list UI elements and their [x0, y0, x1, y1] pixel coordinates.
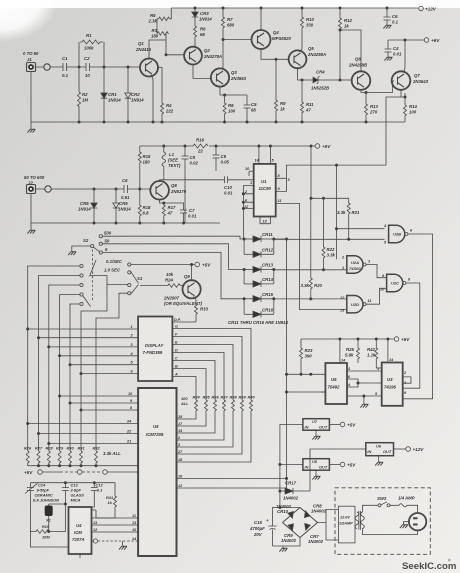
wire: U2D input 12 gating line: [274, 298, 347, 300]
wire: to Q2 base: [166, 54, 185, 56]
svg-text:180: 180: [143, 160, 151, 165]
svg-text:CR5: CR5: [80, 201, 89, 206]
diode CR17: [280, 481, 310, 501]
svg-text:1/2AMP: 1/2AMP: [339, 522, 353, 526]
diode CR9: [283, 523, 301, 538]
diode CR3: [192, 7, 212, 27]
ground under C6: [383, 25, 391, 28]
wire: U7 out: [329, 424, 340, 426]
resistor R8: [223, 94, 236, 123]
svg-text:10k: 10k: [166, 272, 174, 277]
wire: U1 left pin tie down to CR11: [243, 171, 249, 239]
transistor Q1: [135, 41, 158, 77]
svg-text:1N914: 1N914: [131, 98, 144, 103]
wire: U5 pin 12 right: [177, 487, 287, 489]
resistor R24: [165, 272, 182, 287]
wire: pullup feed line: [311, 197, 349, 199]
wire: osc bottom return: [30, 504, 68, 547]
wire: display pin5 to bus: [70, 364, 134, 366]
wire: S1 elbow path A: [81, 276, 107, 452]
svg-text:R13: R13: [370, 104, 378, 109]
node R3/Q1/Q2: [165, 53, 168, 56]
svg-text:1: 1: [342, 266, 344, 270]
svg-text:+5V: +5V: [347, 463, 356, 468]
gating diode CR14: [244, 277, 274, 287]
U1 bottom pin loop: [260, 217, 270, 224]
wire: oscillator top rail: [30, 482, 115, 484]
svg-text:7207A: 7207A: [72, 537, 85, 542]
resistor R28: [47, 451, 50, 466]
resistor R15: [138, 146, 151, 189]
svg-text:1.1k: 1.1k: [367, 353, 376, 358]
display segment pin B: [172, 364, 206, 400]
bridge labels: [276, 504, 327, 545]
display segment pin C: [172, 356, 215, 400]
svg-text:C9: C9: [221, 154, 227, 159]
gate U2B: [383, 224, 413, 245]
svg-text:R39: R39: [239, 395, 247, 400]
svg-text:R16: R16: [196, 138, 204, 143]
svg-text:Q4: Q4: [273, 30, 279, 35]
wire: J1 to C1: [36, 66, 64, 68]
wire: Q7 collector to +6V rail: [403, 40, 405, 73]
display DP pin: [172, 318, 196, 322]
svg-text:0 TO 50: 0 TO 50: [23, 51, 39, 56]
svg-text:4700μF: 4700μF: [249, 526, 265, 531]
ganged switch dashed link: [92, 250, 94, 303]
wire: C1 to C2 node: [67, 66, 87, 68]
wire: J2 to C6b: [36, 188, 125, 190]
capacitor C6: [384, 7, 399, 26]
contact 50: [99, 238, 110, 245]
svg-text:J1: J1: [27, 57, 32, 62]
wire: R10 to Q5 collector: [299, 29, 302, 52]
jack J1: [27, 63, 36, 72]
svg-text:R6: R6: [200, 27, 206, 32]
wire: node to CR2/Q1: [104, 66, 141, 68]
transistor Q4: [252, 30, 292, 49]
svg-text:C: C: [175, 356, 178, 360]
crystal X1: [45, 506, 53, 523]
wire: U5 pin 8 to bus: [81, 409, 134, 411]
svg-text:OUT: OUT: [319, 464, 328, 469]
ground under C4: [384, 57, 392, 60]
wire: R23/R20 to U6 pin: [287, 373, 326, 375]
svg-text:MPS6520: MPS6520: [272, 36, 291, 41]
wire: output tap to gate section: [386, 97, 401, 165]
resistor R17: [160, 199, 176, 223]
contact 0.1sec: [128, 263, 131, 266]
wire: Q1 source down: [151, 75, 153, 122]
svg-text:E.F.JOHNSON: E.F.JOHNSON: [33, 498, 59, 503]
wire: Q4 collector to rail: [260, 8, 262, 31]
svg-text:11C90: 11C90: [259, 186, 272, 191]
svg-text:0.1: 0.1: [62, 73, 69, 78]
resistor R6: [194, 26, 207, 47]
wire: Q6 emitter to Q7 base: [361, 81, 394, 93]
svg-text:D: D: [175, 348, 178, 352]
wire: x310 pullup vertical: [310, 198, 312, 278]
wire: U4b in from CR17: [310, 449, 366, 491]
svg-text:75492: 75492: [328, 385, 341, 390]
wire: U4b out: [394, 448, 406, 450]
terminal +5V left: [38, 470, 43, 475]
resistor R30: [69, 451, 72, 466]
svg-text:1N4002: 1N4002: [308, 539, 324, 544]
resistor R41: [106, 483, 117, 518]
svg-text:50 TO 500: 50 TO 500: [24, 175, 45, 180]
svg-text:SW3: SW3: [377, 496, 387, 501]
svg-text:U3: U3: [387, 377, 393, 382]
wire 500 line: [102, 236, 244, 239]
contact 5: [99, 247, 108, 254]
capacitor C2: [84, 56, 104, 78]
svg-text:R9: R9: [280, 101, 286, 106]
svg-text:IN: IN: [367, 449, 371, 454]
svg-text:CR15: CR15: [262, 292, 274, 297]
svg-text:C2: C2: [84, 56, 90, 61]
svg-text:330: 330: [306, 23, 314, 28]
svg-text:C6: C6: [392, 14, 398, 19]
diode CR10: [283, 508, 301, 523]
resistor R20: [301, 278, 323, 299]
svg-text:1/4 AMP: 1/4 AMP: [398, 496, 415, 501]
resistor R35: [138, 395, 210, 427]
node junction C2/CR1: [103, 66, 106, 69]
svg-text:0.01: 0.01: [188, 214, 197, 219]
svg-text:CR16: CR16: [262, 307, 274, 312]
resistor R34: [138, 395, 200, 420]
gating diode CR15: [244, 292, 274, 302]
terminal circle mid1: [77, 470, 82, 475]
contact 1.0sec: [128, 271, 131, 274]
svg-text:R17: R17: [168, 205, 176, 210]
ground U7: [315, 430, 317, 436]
svg-text:1: 1: [377, 367, 379, 371]
svg-text:ICM: ICM: [74, 530, 82, 535]
resistor R7: [222, 7, 235, 40]
svg-text:+5V: +5V: [347, 423, 356, 428]
wire: +5V drop to pullups: [310, 146, 312, 198]
svg-text:0.1/SEC: 0.1/SEC: [106, 259, 123, 264]
display segment pin D: [172, 348, 224, 400]
svg-text:Q9: Q9: [184, 274, 190, 279]
svg-text:0.1: 0.1: [392, 20, 399, 25]
svg-text:0.05: 0.05: [221, 160, 230, 165]
svg-text:1N5252B: 1N5252B: [311, 86, 329, 91]
capacitor C9 bypass: [213, 145, 230, 172]
wire: U2C out right and down: [403, 283, 420, 388]
resistor R22: [322, 247, 335, 270]
capacitor C1: [62, 56, 69, 78]
ground symbol J1 bus: [27, 129, 35, 132]
svg-text:68: 68: [251, 108, 256, 113]
display segment pin G: [172, 324, 251, 400]
wire: R41 to U4: [92, 517, 116, 519]
svg-text:R3: R3: [152, 28, 158, 33]
wire: cathode pair ties x273.8: [273, 239, 275, 314]
svg-text:U2D: U2D: [351, 302, 359, 307]
wire: U5 pin 10 to bus: [60, 395, 134, 397]
counter IC U5 ICM7208: [138, 388, 176, 556]
wire: Q5 emitter down to CR4 line: [298, 68, 314, 81]
wire dashes: [82, 471, 103, 473]
wire: U5 pin 9 to bus: [70, 402, 134, 404]
wire 50 line: [102, 244, 244, 270]
resistor R40: [177, 395, 256, 463]
svg-text:U6: U6: [376, 444, 382, 449]
wire: Q3 emitter to R8/C5: [220, 86, 247, 95]
wire: contact row 2 to bus: [39, 276, 80, 452]
svg-text:C5: C5: [251, 102, 257, 107]
svg-text:20V: 20V: [253, 532, 263, 537]
svg-text:IN: IN: [305, 424, 309, 429]
logic IC U6 75492: [325, 363, 347, 404]
svg-text:R1: R1: [86, 33, 92, 38]
wire: U6-U3 link 2: [347, 379, 358, 387]
transistor Q6: [348, 57, 370, 90]
resistor R18: [138, 189, 151, 223]
terminal +6V: [424, 38, 440, 43]
ground under U6/U3: [360, 404, 368, 407]
gating diode CR11: [244, 232, 274, 242]
terminal circle mid2: [103, 470, 108, 475]
terminal +5V right: [394, 337, 410, 342]
connector bead 2: [45, 186, 51, 192]
connector bead: [44, 64, 50, 70]
svg-text:U2C: U2C: [391, 281, 399, 286]
svg-text:2N3563: 2N3563: [230, 76, 247, 81]
svg-text:R4: R4: [166, 103, 172, 108]
dashed enclosure: [335, 488, 430, 555]
wire: U1 output line to Q7 tap: [286, 165, 386, 178]
svg-text:21: 21: [126, 440, 131, 444]
U5 right pin numbers: [177, 415, 183, 488]
gate U2D: [340, 296, 371, 313]
wire: bridge plus node: [278, 506, 281, 509]
resistor R36: [138, 395, 219, 434]
display left pins: [134, 329, 138, 374]
svg-text:47: 47: [167, 211, 173, 216]
wire: display pin2 to bus: [39, 337, 135, 339]
svg-text:CR12: CR12: [262, 247, 274, 252]
S1 left arm: [83, 260, 96, 307]
svg-text:R8: R8: [228, 103, 234, 108]
svg-text:3.3k ALL: 3.3k ALL: [103, 451, 121, 456]
U1 pin 11 wire: [276, 203, 347, 309]
svg-text:C15: C15: [254, 520, 262, 525]
wire: crystal bottom: [48, 516, 50, 532]
svg-text:OUT: OUT: [383, 449, 392, 454]
wire: signal drop to gates: [336, 165, 338, 259]
transistor Q3: [211, 68, 247, 86]
svg-text:1k: 1k: [280, 107, 285, 112]
svg-text:+6V: +6V: [431, 38, 440, 43]
svg-text:1: 1: [250, 181, 252, 185]
bridge rectifier diamond: [283, 508, 318, 538]
svg-text:390: 390: [305, 354, 313, 359]
gating diode CR16: [244, 307, 274, 317]
wire: U6-U3 link 3: [358, 382, 382, 384]
contact 500: [99, 231, 112, 238]
svg-text:CR3: CR3: [200, 11, 209, 16]
ground inside supply: [404, 522, 410, 525]
svg-text:100: 100: [228, 109, 236, 114]
diode CR5: [78, 188, 97, 224]
svg-text:2N5179: 2N5179: [170, 189, 187, 194]
node R7/Q4 base: [222, 38, 225, 41]
S1 contact column circles: [80, 264, 83, 305]
wire: 0.1sec line to +5V: [131, 264, 195, 266]
svg-text:180: 180: [151, 34, 159, 39]
svg-text:+12V: +12V: [413, 447, 425, 452]
terminal +12V: [419, 6, 437, 11]
svg-text:R33: R33: [200, 307, 208, 312]
svg-text:CR6: CR6: [119, 201, 128, 206]
resistor R37: [138, 395, 228, 441]
U1 top pins to +5V rail: [259, 146, 271, 164]
svg-text:10M: 10M: [42, 535, 50, 540]
node R15/base: [138, 188, 141, 191]
svg-text:R18: R18: [143, 205, 151, 210]
ground at S2: [72, 246, 91, 252]
ground bus section1: [31, 72, 405, 130]
svg-text:0.02: 0.02: [190, 161, 199, 166]
svg-text:®: ®: [448, 559, 451, 563]
svg-text:R11: R11: [306, 102, 314, 107]
svg-text:1N4002: 1N4002: [311, 509, 327, 514]
wire: U5 pin 22 to bus: [39, 433, 135, 435]
wire: S1 elbow path B: [96, 293, 128, 451]
svg-text:OUT: OUT: [319, 424, 328, 429]
svg-text:CR13: CR13: [262, 263, 274, 268]
capacitor C5: [244, 95, 258, 122]
svg-text:U4: U4: [76, 523, 82, 528]
svg-text:U7: U7: [312, 419, 318, 424]
svg-text:0.1: 0.1: [97, 488, 102, 493]
svg-text:R32: R32: [93, 446, 101, 451]
resistor R21: [337, 198, 360, 239]
svg-text:1.0 SEC: 1.0 SEC: [104, 268, 121, 273]
resistor R12: [339, 7, 353, 82]
switch S2 arm: [93, 247, 99, 252]
svg-text:R25: R25: [346, 347, 354, 352]
contact low: [128, 292, 131, 295]
svg-text:R5: R5: [150, 13, 156, 18]
terminal +5V at Q9: [195, 262, 211, 267]
U5 left pins upper: [134, 396, 138, 444]
svg-text:Q8: Q8: [171, 183, 177, 188]
svg-text:CR2: CR2: [131, 92, 140, 97]
svg-text:68: 68: [200, 32, 205, 37]
svg-text:12.6V: 12.6V: [340, 516, 350, 520]
U4 right pin wires to U5: [92, 510, 139, 532]
svg-text:ICM7208: ICM7208: [146, 432, 164, 437]
capacitor C8 bypass: [182, 145, 199, 224]
resistor R1 (feedback over C2): [79, 33, 104, 67]
wire: display pin1 to bus: [28, 328, 134, 330]
svg-text:(SEE: (SEE: [168, 158, 178, 163]
wire: U6-U3 link 1: [347, 370, 382, 372]
svg-text:1N914: 1N914: [78, 207, 91, 212]
svg-text:2.3k: 2.3k: [148, 19, 158, 24]
svg-text:22: 22: [197, 149, 203, 154]
ground U8: [315, 470, 317, 476]
regulator U4b 12V: [366, 443, 394, 456]
svg-text:11: 11: [132, 514, 136, 518]
wire: U6 ground pin: [347, 396, 364, 404]
svg-text:270: 270: [369, 110, 378, 115]
svg-text:27: 27: [177, 450, 183, 454]
terminal +5V section2: [315, 144, 331, 149]
svg-text:1N914: 1N914: [118, 207, 131, 212]
svg-text:B: B: [175, 364, 178, 368]
wire: Q9 emitter to R33: [194, 297, 197, 304]
svg-text:R35: R35: [203, 395, 211, 400]
svg-text:L1: L1: [169, 152, 175, 157]
transistor Q8: [150, 181, 186, 200]
svg-text:47: 47: [305, 108, 311, 113]
svg-text:74196: 74196: [384, 385, 397, 390]
svg-text:R10: R10: [306, 17, 314, 22]
svg-text:C8: C8: [190, 155, 196, 160]
svg-text:TEXT): TEXT): [168, 163, 181, 168]
svg-text:222: 222: [165, 109, 174, 114]
svg-text:100k: 100k: [84, 46, 94, 51]
svg-text:28: 28: [177, 415, 183, 419]
wire: U8 out: [329, 464, 340, 466]
svg-text:CR11: CR11: [262, 232, 273, 237]
svg-text:DISPLAY: DISPLAY: [145, 343, 164, 348]
svg-text:2N4258A: 2N4258A: [307, 52, 326, 57]
svg-text:C1: C1: [62, 56, 68, 61]
svg-text:3.3k: 3.3k: [327, 253, 336, 258]
capacitor C10: [224, 176, 254, 195]
svg-text:R14: R14: [409, 104, 417, 109]
svg-text:Q6: Q6: [355, 57, 361, 62]
resistor R3: [151, 19, 169, 55]
svg-text:Q7: Q7: [414, 73, 420, 78]
wire: U7 in from supply: [280, 425, 303, 508]
U1 right pin loop 8-9: [276, 178, 287, 191]
U1 left pins: [243, 171, 253, 208]
svg-text:5.6k: 5.6k: [345, 353, 354, 358]
resistor R14: [404, 104, 418, 122]
svg-text:CR11 THRU CR16 ARE 1N914: CR11 THRU CR16 ARE 1N914: [228, 320, 289, 325]
svg-text:R21: R21: [352, 210, 360, 215]
wire: base feed to R24: [140, 285, 168, 287]
svg-text:7-FND359: 7-FND359: [143, 350, 163, 355]
wire: Q4 emitter to Q5 base: [261, 48, 289, 59]
svg-text:R31: R31: [78, 446, 85, 451]
wire: contact row 1 to bus: [28, 266, 80, 451]
svg-text:0.51: 0.51: [121, 195, 130, 200]
wire: contact row 4 to bus: [60, 295, 80, 452]
capacitor C13: [62, 481, 84, 504]
resistor R39: [177, 395, 247, 455]
resistor R9: [275, 58, 287, 122]
wire: Q9 collector: [191, 265, 193, 281]
resistor R4: [157, 68, 173, 124]
wire: U5 pin 21 to bus: [49, 443, 134, 445]
svg-text:R28: R28: [46, 446, 54, 451]
resistor row R26-R32 labels: [24, 446, 100, 451]
svg-text:Q3: Q3: [231, 70, 237, 75]
svg-text:Q2: Q2: [204, 48, 210, 53]
svg-text:+5V: +5V: [202, 263, 211, 268]
wire: to Q4 base: [223, 39, 252, 41]
contact mid: [128, 283, 131, 286]
